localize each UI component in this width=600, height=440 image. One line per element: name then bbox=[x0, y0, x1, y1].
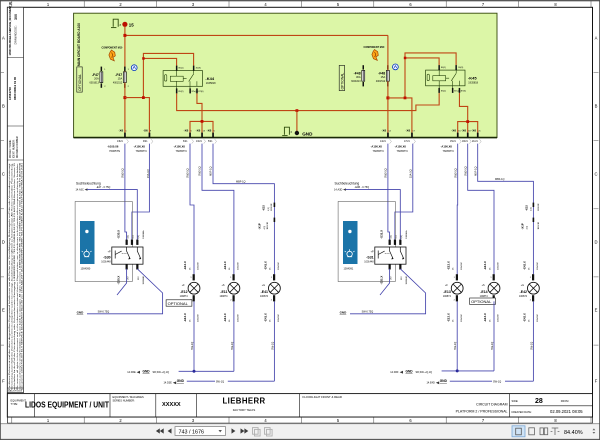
node gnd bus junction bbox=[296, 109, 299, 112]
history back icon bbox=[253, 428, 273, 436]
svg-text:-E41.X: -E41.X bbox=[264, 261, 268, 270]
svg-text:1004287: 1004287 bbox=[198, 313, 200, 322]
wire output distribution bbox=[190, 121, 213, 132]
optional marker E14 bbox=[470, 298, 496, 304]
svg-text:1004287: 1004287 bbox=[278, 261, 280, 270]
svg-text:EQUIPMENT: EQUIPMENT bbox=[11, 399, 27, 403]
wire pin13 to lamp E11 bbox=[202, 144, 234, 275]
svg-text:-E11.X: -E11.X bbox=[223, 261, 227, 270]
svg-text:DRAWING/DOC:: DRAWING/DOC: bbox=[15, 25, 18, 44]
wire E12 to gnd rail bbox=[193, 301, 195, 371]
svg-text:SW3-1Q: SW3-1Q bbox=[199, 166, 202, 176]
svg-text:SW-1Q: SW-1Q bbox=[231, 342, 234, 350]
svg-text:GND: GND bbox=[177, 379, 185, 383]
wire S31 stub bbox=[380, 269, 390, 295]
svg-text:1004287: 1004287 bbox=[278, 313, 280, 322]
lamp E13 bbox=[443, 261, 463, 322]
harness labels A100.X6 bbox=[107, 145, 454, 153]
svg-text:SR,SW-+Q,1Q: SR,SW-+Q,1Q bbox=[153, 371, 169, 374]
ground rail right 2 bbox=[427, 379, 534, 384]
svg-text:14.D6F: 14.D6F bbox=[390, 371, 399, 374]
svg-text:76065TN: 76065TN bbox=[373, 149, 384, 153]
wire pin6 to lamp E12 bbox=[190, 144, 194, 275]
pin 86 K45 bbox=[438, 65, 440, 70]
optional marker right bbox=[339, 65, 344, 90]
svg-text:28: 28 bbox=[535, 398, 543, 405]
svg-text:MBF-1Q: MBF-1Q bbox=[210, 167, 213, 177]
Suchbeleuchtung feed right bbox=[334, 181, 400, 240]
svg-text:-X6: -X6 bbox=[196, 129, 201, 133]
svg-text:-S30.X: -S30.X bbox=[117, 276, 121, 285]
svg-text:FROM: FROM bbox=[561, 399, 569, 403]
wire fuse to pin1 bbox=[124, 83, 126, 133]
S30.X bottom pins bbox=[126, 264, 128, 269]
wire E13 to gnd rail bbox=[456, 301, 458, 371]
svg-text:-E11: -E11 bbox=[220, 290, 227, 294]
node coil feed junction right bbox=[404, 57, 407, 60]
connector -X6 pin 6 bbox=[183, 129, 194, 144]
svg-text:14.A3C: 14.A3C bbox=[76, 189, 85, 192]
main circuit board A100 bbox=[74, 13, 497, 137]
svg-text:86(1): 86(1) bbox=[441, 67, 446, 69]
svg-text:-E4B - 0.75Q: -E4B - 0.75Q bbox=[355, 186, 370, 189]
connector X6 pin row bbox=[117, 129, 481, 144]
connector -X6 pin 5 bbox=[207, 129, 217, 144]
copyright text block bbox=[8, 162, 24, 390]
svg-text:PLATFORM 2 / PROFESSIONAL: PLATFORM 2 / PROFESSIONAL bbox=[456, 410, 508, 414]
svg-text:PROJECT NAME:: PROJECT NAME: bbox=[9, 139, 12, 158]
svg-text:E: E bbox=[595, 308, 598, 313]
wire branch to K44 coil 86 bbox=[143, 58, 176, 65]
svg-text:-A100.X6: -A100.X6 bbox=[371, 145, 383, 149]
svg-text:vorbehalten fur den Fall der P: vorbehalten fur den Fall der Patentertei… bbox=[13, 162, 16, 390]
svg-text:SW-1Q: SW-1Q bbox=[491, 342, 494, 350]
wire E14 to gnd rail bbox=[493, 301, 495, 371]
svg-text:-X6: -X6 bbox=[406, 129, 411, 133]
two page icon bbox=[540, 428, 548, 435]
svg-text:Fur dieses Dokument und den da: Fur dieses Dokument und den darin darges… bbox=[8, 162, 11, 390]
svg-text:1001448: 1001448 bbox=[101, 260, 111, 263]
svg-text:6(4): 6(4) bbox=[138, 235, 140, 239]
svg-text:-E42.X: -E42.X bbox=[523, 261, 527, 270]
svg-text:4(1): 4(1) bbox=[526, 225, 528, 229]
svg-text:MAIN CIRCUIT BOARD A100: MAIN CIRCUIT BOARD A100 bbox=[77, 23, 81, 66]
svg-text:EQUIPMENT / MACHINES: EQUIPMENT / MACHINES bbox=[113, 395, 144, 399]
svg-text:5(1): 5(1) bbox=[396, 235, 398, 239]
svg-text:-E47 - 0.75Q: -E47 - 0.75Q bbox=[96, 186, 110, 189]
bottom column ticks bbox=[12, 417, 591, 423]
svg-text:100088B: 100088B bbox=[143, 276, 145, 285]
svg-text:1004287: 1004287 bbox=[198, 261, 200, 270]
svg-text:SW-1Q: SW-1Q bbox=[191, 342, 194, 350]
node 15 supply bbox=[111, 19, 134, 27]
svg-text:E: E bbox=[2, 308, 5, 313]
switch S30 bbox=[101, 230, 145, 285]
location frame left bbox=[75, 202, 132, 282]
svg-text:-K45: -K45 bbox=[468, 76, 477, 81]
svg-text:743 / 1676: 743 / 1676 bbox=[179, 429, 204, 435]
zoom selected button bbox=[512, 426, 525, 437]
svg-text:GND: GND bbox=[440, 379, 448, 383]
nav first-page button bbox=[156, 428, 172, 433]
fuse F48 15A bbox=[376, 65, 389, 86]
svg-text:-X1P: -X1P bbox=[521, 223, 525, 229]
fuse F48 30A (optional) bbox=[351, 65, 364, 86]
svg-text:76065TN: 76065TN bbox=[397, 149, 408, 153]
svg-text:100084B: 100084B bbox=[406, 276, 408, 285]
svg-text:-X6: -X6 bbox=[184, 129, 189, 133]
connector X15 left bbox=[262, 203, 276, 211]
wire pin21 to lamp E42 bbox=[478, 144, 534, 275]
svg-text:FLOODLIGHT FRONT & REAR: FLOODLIGHT FRONT & REAR bbox=[303, 395, 342, 399]
svg-text:B: B bbox=[595, 104, 598, 109]
svg-text:15A: 15A bbox=[381, 75, 386, 79]
svg-text:14/21: 14/21 bbox=[380, 141, 386, 143]
relay K44 bbox=[163, 66, 216, 94]
pin 86 bbox=[176, 66, 178, 71]
svg-text:A: A bbox=[595, 36, 598, 41]
svg-text:300: 300 bbox=[14, 14, 18, 20]
svg-text:85(2): 85(2) bbox=[178, 91, 183, 93]
svg-text:13561708: 13561708 bbox=[8, 87, 12, 100]
sheet top edge bbox=[0, 0, 600, 2]
svg-text:C: C bbox=[594, 172, 597, 177]
svg-text:1004287: 1004287 bbox=[461, 261, 463, 270]
svg-text:-F47: -F47 bbox=[115, 73, 122, 77]
svg-text:-E12.X: -E12.X bbox=[183, 261, 187, 270]
node junction at bus bbox=[123, 34, 126, 37]
svg-text:11N21B: 11N21B bbox=[271, 203, 273, 211]
svg-text:15: 15 bbox=[129, 22, 134, 27]
ground rail left 2 bbox=[164, 379, 275, 384]
svg-text:-A100.X6: -A100.X6 bbox=[107, 145, 119, 149]
svg-text:SW-0.75Q: SW-0.75Q bbox=[362, 311, 374, 314]
svg-text:SW-0.75Q: SW-0.75Q bbox=[98, 311, 110, 314]
svg-text:1004287: 1004287 bbox=[238, 261, 240, 270]
svg-text:-X1P: -X1P bbox=[257, 223, 261, 229]
wire output distribution right bbox=[458, 122, 478, 133]
svg-text:F: F bbox=[595, 379, 598, 384]
svg-text:GND: GND bbox=[406, 369, 414, 373]
svg-text:1/621: 1/621 bbox=[117, 141, 123, 143]
svg-text:6(4): 6(4) bbox=[401, 235, 403, 239]
svg-text:MBF-1Q: MBF-1Q bbox=[495, 178, 505, 181]
page number box bbox=[175, 427, 226, 436]
wire S30 to ground bbox=[87, 269, 163, 314]
component note right bbox=[364, 46, 386, 60]
node dot 15 bbox=[122, 22, 127, 27]
svg-text:We reserve all rights in this: We reserve all rights in this document a… bbox=[16, 162, 19, 390]
svg-text:SIDE:: SIDE: bbox=[512, 399, 519, 403]
pin 30 bbox=[193, 66, 195, 71]
wire branch up to K44 contact supply bbox=[143, 53, 193, 97]
pin 87 K45 bbox=[459, 88, 461, 93]
node output junction bbox=[201, 120, 204, 123]
node coil feed junction bbox=[142, 57, 145, 60]
svg-text:4(1): 4(1) bbox=[268, 207, 270, 211]
svg-text:76065TN: 76065TN bbox=[136, 149, 147, 153]
svg-text:76065TN: 76065TN bbox=[443, 149, 454, 153]
svg-text:-E12.X: -E12.X bbox=[183, 313, 187, 322]
top column ticks bbox=[12, 1, 591, 7]
location frame right bbox=[338, 202, 395, 282]
svg-text:-E11.X: -E11.X bbox=[223, 313, 227, 322]
pin 85 K45 bbox=[438, 88, 440, 93]
svg-text:-X15: -X15 bbox=[262, 205, 266, 211]
indicator symbol left bbox=[131, 65, 137, 71]
svg-text:100874: 100874 bbox=[519, 295, 528, 298]
wire pin9 to S30 bbox=[132, 144, 150, 241]
wire K44 coil ground bus bbox=[177, 93, 440, 111]
wire E42 to gnd rail2 bbox=[532, 301, 534, 381]
pin 87 bbox=[196, 88, 198, 93]
svg-text:15/21: 15/21 bbox=[450, 141, 456, 143]
TITLE_BLOCK bbox=[7, 394, 592, 417]
svg-text:-S31.X: -S31.X bbox=[380, 276, 384, 285]
svg-text:GND: GND bbox=[340, 310, 348, 314]
svg-text:SW3-1Q: SW3-1Q bbox=[187, 168, 190, 178]
svg-text:-A100.X6: -A100.X6 bbox=[441, 145, 453, 149]
svg-text:76065TN: 76065TN bbox=[176, 149, 187, 153]
connector -X6 pin 13 bbox=[196, 129, 206, 144]
svg-text:-F48: -F48 bbox=[378, 71, 385, 75]
svg-text:-S31.X: -S31.X bbox=[380, 230, 384, 239]
svg-text:SW-1Q: SW-1Q bbox=[216, 381, 224, 384]
svg-text:-A100.X6: -A100.X6 bbox=[395, 145, 407, 149]
svg-text:11N21B: 11N21B bbox=[538, 203, 540, 211]
svg-text:+S: +S bbox=[222, 284, 225, 287]
svg-text:20A: 20A bbox=[94, 77, 99, 81]
svg-text:LIDOS EQUIPMENT / UNIT: LIDOS EQUIPMENT / UNIT bbox=[25, 401, 109, 410]
svg-text:1004287: 1004287 bbox=[537, 261, 539, 270]
TOOLBAR bbox=[0, 424, 600, 440]
svg-text:Suchbeleuchtung: Suchbeleuchtung bbox=[76, 181, 101, 185]
svg-text:-X6: -X6 bbox=[461, 129, 466, 133]
svg-text:-S30: -S30 bbox=[103, 255, 110, 259]
svg-text:LIEBHERR: LIEBHERR bbox=[222, 397, 265, 406]
svg-text:100874: 100874 bbox=[220, 295, 229, 298]
svg-text:-E42.X: -E42.X bbox=[523, 313, 527, 322]
svg-text:6001613: 6001613 bbox=[351, 80, 361, 83]
svg-text:02.09.2021 08:05: 02.09.2021 08:05 bbox=[550, 409, 583, 414]
svg-text:9/21: 9/21 bbox=[143, 141, 148, 143]
connector -X6 pin 9 bbox=[143, 129, 153, 144]
wire E41 to gnd rail2 bbox=[273, 301, 275, 381]
svg-text:C: C bbox=[2, 172, 5, 177]
svg-text:-S30.X: -S30.X bbox=[117, 230, 121, 239]
rocker switch pictogram left bbox=[80, 221, 95, 270]
svg-text:14.E4D: 14.E4D bbox=[427, 381, 436, 384]
ground label S31 bbox=[340, 310, 374, 314]
fit width icon bbox=[551, 428, 560, 435]
wire top bus to K45 branch bbox=[125, 34, 388, 36]
pin 30 K45 bbox=[455, 65, 457, 70]
node branch junction bbox=[142, 96, 145, 99]
svg-text:14.A3D: 14.A3D bbox=[334, 189, 343, 192]
svg-text:COMPONENT M10: COMPONENT M10 bbox=[102, 47, 124, 50]
SIDEBAR bbox=[7, 2, 23, 393]
ground rail left 1 bbox=[127, 369, 234, 374]
svg-text:MBF-1Q: MBF-1Q bbox=[474, 167, 477, 177]
svg-text:TYPE:: TYPE: bbox=[11, 402, 19, 406]
svg-text:Suchbeleuchtung: Suchbeleuchtung bbox=[335, 181, 360, 185]
pin 87a K45 bbox=[452, 88, 454, 93]
svg-text:-K44: -K44 bbox=[205, 76, 214, 81]
node branch junction right bbox=[404, 97, 407, 100]
svg-text:CREATED DATE:: CREATED DATE: bbox=[511, 410, 532, 414]
connector -X6 pin 21 bbox=[471, 129, 481, 144]
wire pin1 to S30 bbox=[125, 144, 127, 241]
wire S31 to ground bbox=[350, 269, 426, 314]
svg-text:-E41: -E41 bbox=[261, 290, 268, 294]
svg-text:GND: GND bbox=[143, 369, 151, 373]
svg-text:1004091: 1004091 bbox=[344, 267, 354, 270]
fuse F47 15A bbox=[113, 67, 130, 88]
svg-text:SW-1Q: SW-1Q bbox=[530, 342, 533, 350]
svg-text:4001512: 4001512 bbox=[376, 80, 386, 83]
connector X15 right bbox=[525, 203, 540, 211]
svg-text:GND: GND bbox=[77, 310, 85, 314]
svg-text:OPTIONAL: OPTIONAL bbox=[168, 301, 189, 306]
svg-text:GND: GND bbox=[302, 132, 313, 137]
svg-text:FACTORY TELFS: FACTORY TELFS bbox=[233, 408, 256, 412]
lamp E42 bbox=[519, 261, 539, 322]
svg-text:18/21: 18/21 bbox=[462, 141, 468, 143]
svg-text:-E13.X: -E13.X bbox=[446, 261, 450, 270]
svg-text:30(9): 30(9) bbox=[196, 68, 201, 70]
svg-text:DRAWING NUMBER:: DRAWING NUMBER: bbox=[16, 135, 19, 158]
svg-text:-S31: -S31 bbox=[366, 255, 373, 259]
svg-text:OPTIONAL: OPTIONAL bbox=[471, 299, 492, 304]
node output junction right bbox=[466, 120, 469, 123]
Suchbeleuchtung feed left bbox=[76, 181, 138, 240]
wire gnd drop bbox=[296, 111, 298, 131]
pin 85 bbox=[176, 88, 178, 93]
pin 87a bbox=[189, 88, 191, 93]
svg-text:-E42: -E42 bbox=[520, 290, 527, 294]
lamp E12 bbox=[180, 261, 200, 322]
svg-text:17/21: 17/21 bbox=[404, 141, 410, 143]
S31 body bbox=[375, 247, 406, 264]
svg-text:MBF-1Q: MBF-1Q bbox=[236, 181, 246, 184]
svg-text:B: B bbox=[2, 104, 5, 109]
svg-text:14.D3E: 14.D3E bbox=[164, 381, 173, 384]
wire E11 to gnd rail bbox=[233, 301, 235, 371]
svg-text:-E12: -E12 bbox=[180, 290, 187, 294]
svg-text:1004287: 1004287 bbox=[461, 313, 463, 322]
rocker switch pictogram right bbox=[343, 221, 358, 270]
svg-text:15A-1Q: 15A-1Q bbox=[147, 169, 150, 178]
svg-text:6/21: 6/21 bbox=[183, 141, 188, 143]
svg-text:1004287: 1004287 bbox=[498, 261, 500, 270]
svg-text:1935818: 1935818 bbox=[206, 82, 216, 85]
svg-text:1004287: 1004287 bbox=[498, 313, 500, 322]
svg-text:COMPONENT M10: COMPONENT M10 bbox=[364, 46, 386, 49]
svg-text:9860 89811 01 00: 9860 89811 01 00 bbox=[13, 76, 17, 100]
ground rail right 1 bbox=[390, 369, 494, 374]
S31.X top pins bbox=[389, 240, 391, 245]
svg-text:Verwendung ausserhalb des Zwec: Verwendung ausserhalb des Zweckes zu dem… bbox=[11, 162, 14, 390]
optional marker left bbox=[77, 67, 82, 92]
svg-text:-A100.X6: -A100.X6 bbox=[134, 145, 146, 149]
connector -X6 pin 1 bbox=[117, 129, 128, 144]
svg-text:OPTIONAL: OPTIONAL bbox=[340, 73, 344, 90]
connector -X6 pin 17 bbox=[404, 129, 416, 144]
component note left bbox=[102, 47, 124, 61]
svg-text:SW-1Q: SW-1Q bbox=[493, 381, 501, 384]
lamp E14 bbox=[480, 261, 500, 322]
svg-text:-F48: -F48 bbox=[354, 71, 361, 75]
svg-text:5/21: 5/21 bbox=[208, 141, 213, 143]
wire pin18 to lamp E14 bbox=[468, 144, 494, 275]
svg-text:OPTIONAL: OPTIONAL bbox=[78, 74, 82, 91]
svg-text:1004287: 1004287 bbox=[537, 313, 539, 322]
lamp E41 bbox=[260, 261, 280, 322]
svg-text:100874: 100874 bbox=[480, 295, 489, 298]
svg-text:F: F bbox=[2, 379, 5, 384]
S30 body bbox=[112, 247, 143, 264]
svg-text:100874: 100874 bbox=[260, 295, 269, 298]
svg-text:-E14.X: -E14.X bbox=[483, 261, 487, 270]
wire 15 main drop bbox=[124, 27, 126, 72]
svg-text:15A-1Q: 15A-1Q bbox=[410, 169, 413, 178]
svg-text:1N321B: 1N321B bbox=[267, 221, 269, 229]
svg-text:85(2): 85(2) bbox=[441, 91, 446, 93]
svg-text:4(1): 4(1) bbox=[530, 207, 532, 211]
svg-text:1N321B: 1N321B bbox=[538, 221, 540, 229]
connector -X6 pin 15 bbox=[450, 129, 461, 144]
connector symbol at 15 bbox=[111, 19, 118, 27]
wire branch to pin B bbox=[125, 98, 149, 133]
ground node GND bbox=[282, 127, 313, 136]
svg-text:SR,SW-+Q,1Q: SR,SW-+Q,1Q bbox=[416, 371, 432, 374]
svg-text:87(6): 87(6) bbox=[198, 91, 203, 93]
svg-text:-E14: -E14 bbox=[480, 290, 487, 294]
svg-text:-X6: -X6 bbox=[471, 129, 476, 133]
right row letters bbox=[594, 36, 597, 384]
fit page icon bbox=[529, 428, 535, 435]
svg-text:100874: 100874 bbox=[443, 295, 452, 298]
svg-text:-E13: -E13 bbox=[443, 290, 450, 294]
wire F48 drop to pin bbox=[387, 35, 389, 132]
svg-text:86(1): 86(1) bbox=[178, 68, 183, 70]
svg-text:-X6: -X6 bbox=[119, 129, 124, 133]
svg-text:76065TN: 76065TN bbox=[109, 149, 120, 153]
svg-text:-E14.X: -E14.X bbox=[483, 313, 487, 322]
svg-text:+P: +P bbox=[371, 251, 374, 254]
svg-text:-X6: -X6 bbox=[207, 129, 212, 133]
svg-text:SW3-1Q: SW3-1Q bbox=[122, 168, 125, 178]
svg-text:14.D6E: 14.D6E bbox=[127, 371, 136, 374]
svg-text:3(2): 3(2) bbox=[390, 235, 392, 239]
svg-text:+P: +P bbox=[108, 251, 111, 254]
svg-text:XXXXX: XXXXX bbox=[162, 402, 181, 408]
svg-text:3(2): 3(2) bbox=[127, 235, 129, 239]
svg-text:IDENT. NUMBER:: IDENT. NUMBER: bbox=[14, 139, 16, 158]
svg-text:-X15: -X15 bbox=[525, 205, 529, 211]
svg-text:4001512: 4001512 bbox=[113, 82, 123, 85]
svg-text:CIRCUIT DIAGRAM: CIRCUIT DIAGRAM bbox=[476, 403, 508, 407]
svg-text:A: A bbox=[2, 36, 5, 41]
svg-text:100874: 100874 bbox=[180, 295, 189, 298]
wire branch up to K45 contact supply bbox=[405, 53, 456, 98]
svg-text:-E13.X: -E13.X bbox=[446, 313, 450, 322]
svg-text:13/21: 13/21 bbox=[196, 141, 202, 143]
svg-text:87(6): 87(6) bbox=[461, 91, 466, 93]
svg-text:30(9): 30(9) bbox=[458, 67, 463, 69]
svg-text:1004287: 1004287 bbox=[238, 313, 240, 322]
indicator symbol right bbox=[393, 64, 399, 70]
